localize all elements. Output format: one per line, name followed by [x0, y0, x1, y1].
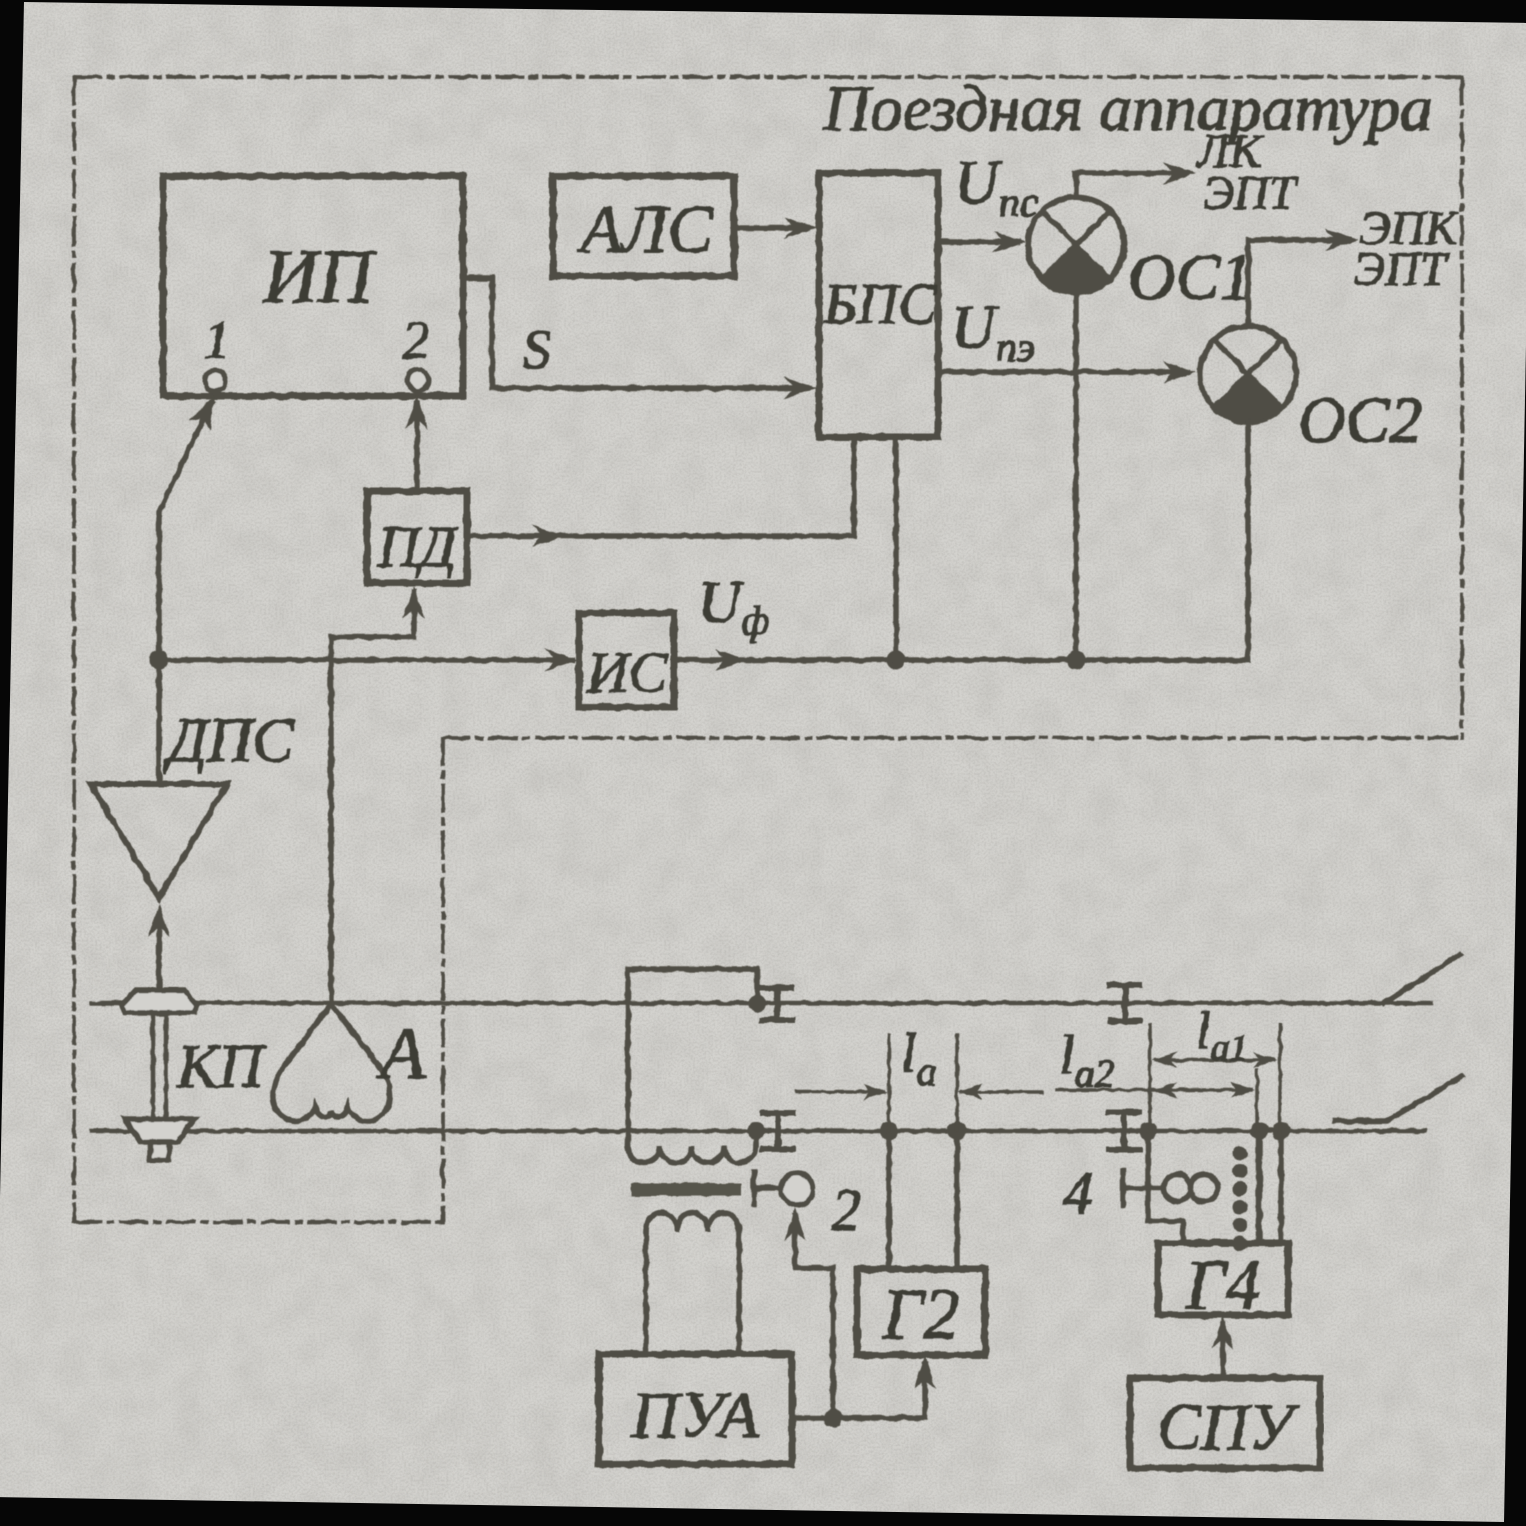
node junction on bus at ДПС leg	[150, 651, 169, 670]
node junction upper rail at loop	[748, 994, 766, 1012]
antenna ДПС triangle	[91, 784, 227, 898]
block ИП	[163, 176, 463, 396]
svg-text:Г4: Г4	[1185, 1247, 1261, 1324]
node junction lower rail Г4 right	[1272, 1122, 1290, 1140]
svg-text:2: 2	[403, 310, 430, 370]
rail switch upper diagonal	[1384, 954, 1461, 1003]
block ПУА	[599, 1354, 792, 1464]
svg-text:ЭПТ: ЭПТ	[1203, 167, 1299, 220]
wire ОС1 down to Uф bus	[1073, 293, 1079, 660]
choke coils at joint 4	[1164, 1175, 1191, 1202]
svg-text:4: 4	[1063, 1160, 1093, 1226]
lamp ОС1	[1028, 197, 1124, 293]
block ПД	[367, 491, 467, 583]
rail lower	[92, 1129, 1425, 1134]
wheel pair КП bottom wheel	[125, 1119, 194, 1142]
svg-text:Г2: Г2	[882, 1274, 960, 1354]
wire rail to Г2 right	[954, 1131, 960, 1269]
dotted column	[1233, 1146, 1248, 1161]
wire БПС bottom to bus	[893, 437, 899, 660]
wire rail to Г4 right	[1278, 1131, 1284, 1243]
wire rail to Г2 left	[886, 1131, 892, 1269]
svg-text:БПС: БПС	[823, 273, 938, 336]
wire ПД to pin 2	[414, 404, 420, 491]
wheel pair axle	[151, 1013, 156, 1119]
dash-dot enclosure: Поездная аппаратура frame top	[74, 75, 1462, 79]
svg-text:ДПС: ДПС	[163, 707, 294, 775]
svg-text:КП: КП	[176, 1033, 266, 1101]
node junction on bus below БПС	[887, 651, 906, 670]
dimension la2 double arrow	[1057, 1088, 1251, 1092]
wire ОС2 to ЭПК ЭПТ	[1248, 240, 1348, 326]
wire Uпс БПС to ОС1	[938, 239, 1018, 245]
insulated joint lower rail left	[763, 1113, 793, 1149]
svg-text:ОС1: ОС1	[1128, 241, 1253, 314]
wire АЛС to БПС	[734, 225, 808, 231]
svg-text:ЭПТ: ЭПТ	[1354, 243, 1450, 296]
lamp ОС2	[1200, 326, 1296, 422]
wire Uф bus from junction to ИС	[159, 657, 572, 663]
wire rail to Г4 mid	[1256, 1131, 1263, 1243]
point 2 circle	[781, 1173, 813, 1205]
svg-text:2: 2	[831, 1177, 861, 1243]
wire Uф bus ИС to ОС2 leg	[674, 657, 1248, 663]
svg-text:ПУА: ПУА	[630, 1379, 759, 1452]
dash-dot enclosure bottom border	[443, 736, 1462, 740]
wire ОС1 to ЛК ЭПТ	[1076, 173, 1186, 197]
svg-text:ОС2: ОС2	[1298, 384, 1423, 457]
node junction on bus below ОС1	[1067, 651, 1086, 670]
insulated joint upper rail right	[1110, 985, 1140, 1021]
svg-text:А: А	[375, 1013, 426, 1095]
node junction on ПУА output	[824, 1409, 843, 1428]
insulated joint upper rail left	[762, 988, 792, 1020]
block АЛС	[553, 176, 734, 276]
tick lead of joint 4	[1120, 1171, 1126, 1206]
dimension la1 extension lines	[1148, 1025, 1152, 1131]
wire БПС bottom to ПД output line	[467, 437, 854, 536]
svg-text:СПУ: СПУ	[1157, 1391, 1301, 1464]
svg-text:ИС: ИС	[586, 640, 669, 705]
dimension la extension lines	[887, 1035, 891, 1131]
block ИС	[579, 613, 674, 707]
svg-text:ИП: ИП	[262, 235, 377, 319]
insulated joint lower rail right	[1109, 1112, 1139, 1150]
ПУА transformer secondary coil	[646, 1213, 739, 1233]
node junction lower rail at coil	[747, 1122, 765, 1140]
svg-text:S: S	[523, 319, 551, 381]
wire antenna А to ПД input	[331, 592, 414, 1003]
dash-dot enclosure left border	[72, 77, 76, 1222]
svg-text:АЛС: АЛС	[577, 191, 713, 267]
block СПУ	[1130, 1378, 1320, 1468]
wire СПУ to Г4	[1220, 1324, 1226, 1378]
antenna А heart	[273, 1004, 390, 1121]
wire ПУА output to Г2	[792, 1364, 925, 1418]
wire КП wheel to ДПС with arrow	[156, 914, 162, 990]
wire bus down to ДПС	[156, 660, 162, 783]
wire joint dot to Г4	[1148, 1131, 1183, 1243]
dimension la2 extension line	[1255, 1070, 1259, 1131]
svg-text:Поездная аппаратура: Поездная аппаратура	[822, 73, 1432, 145]
dash-dot enclosure mid vertical border	[441, 738, 445, 1222]
wheel pair КП top wheel	[122, 990, 197, 1013]
pin 1 terminal circle	[205, 371, 226, 392]
rail switch lower stub and diagonal	[1335, 1076, 1462, 1121]
wire S from ИП to БПС	[463, 278, 808, 388]
block БПС	[819, 173, 938, 437]
dash-dot enclosure right border	[1460, 77, 1464, 738]
wire junction up to point 2 circle	[795, 1216, 833, 1418]
receiver coil on lower rail	[628, 1146, 756, 1163]
svg-text:1: 1	[204, 310, 231, 370]
block Г4	[1158, 1243, 1288, 1315]
node junction lower rail Г4 left	[1250, 1122, 1268, 1140]
block Г2	[857, 1269, 985, 1355]
receiver loop from rails	[628, 969, 757, 1146]
wire Uпэ БПС to ОС2	[938, 369, 1188, 375]
node junction lower rail Г2 right	[948, 1122, 966, 1140]
svg-text:ПД: ПД	[377, 514, 460, 579]
transformer core bar	[631, 1183, 741, 1196]
dash-dot enclosure bottom-left border	[74, 1220, 443, 1224]
dimension la1 double arrow	[1156, 1058, 1274, 1062]
pin 2 terminal circle	[408, 370, 429, 391]
wire ОС2 down to Uф bus	[1245, 422, 1251, 660]
rail upper	[92, 1001, 1431, 1006]
node junction lower rail Г2 left	[880, 1122, 898, 1140]
dimension la arrows	[797, 1090, 884, 1094]
tick lead to point 2	[751, 1172, 757, 1205]
node junction lower rail at joint 4	[1139, 1122, 1157, 1140]
wire bus up to pin 1	[159, 403, 211, 660]
